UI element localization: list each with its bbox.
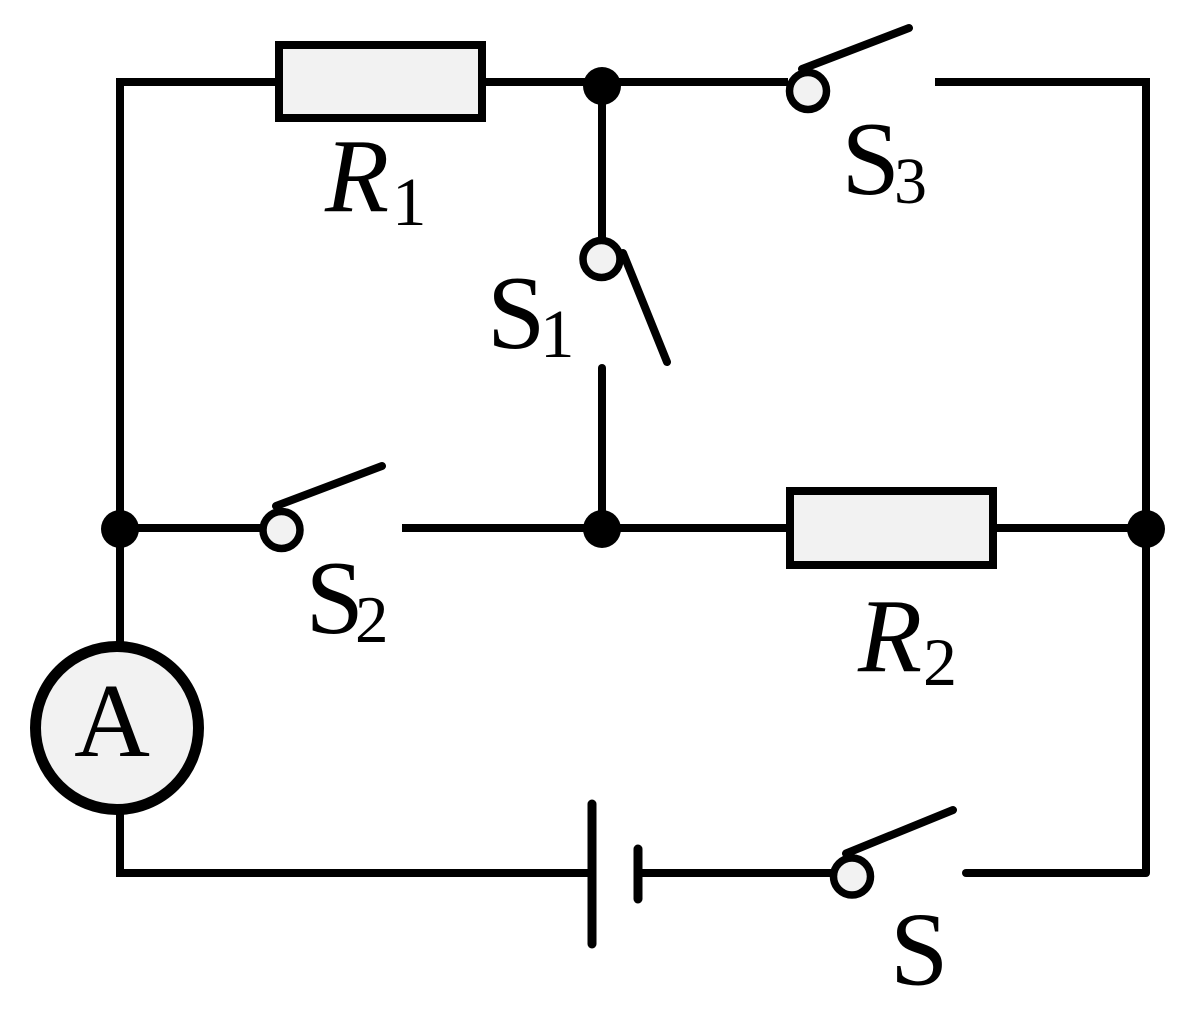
- svg-text:2: 2: [355, 583, 389, 657]
- svg-text:S: S: [842, 100, 900, 217]
- svg-text:3: 3: [894, 145, 927, 218]
- svg-text:2: 2: [923, 624, 957, 700]
- svg-text:1: 1: [540, 296, 575, 372]
- svg-text:1: 1: [392, 164, 427, 240]
- svg-text:S: S: [890, 891, 948, 1008]
- svg-text:R: R: [324, 117, 389, 234]
- svg-text:R: R: [857, 577, 922, 694]
- svg-text:A: A: [74, 662, 150, 779]
- svg-text:S: S: [487, 254, 545, 371]
